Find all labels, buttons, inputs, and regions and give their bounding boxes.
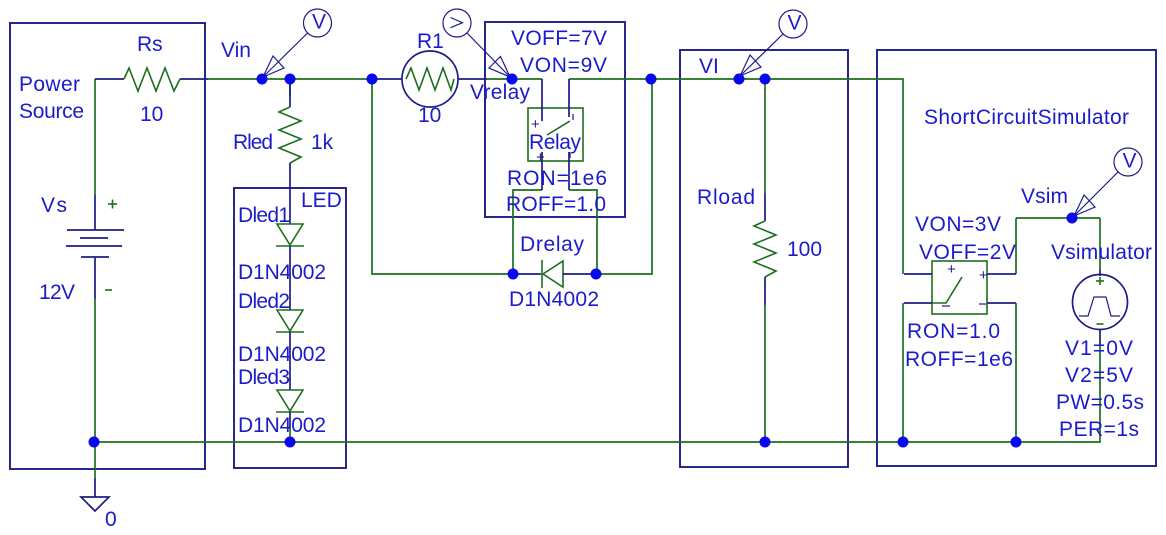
svg-text:10: 10	[140, 103, 163, 126]
svg-text:ShortCircuitSimulator: ShortCircuitSimulator	[924, 106, 1129, 129]
diode Dled2	[276, 246, 304, 332]
wire ground rail simulator	[903, 441, 1016, 443]
svg-text:Vsim: Vsim	[1021, 185, 1068, 208]
wire Vsim node to switch	[1015, 218, 1017, 274]
svg-text:VON=9V: VON=9V	[520, 54, 607, 77]
wire Rs right to Vin node	[208, 78, 262, 80]
svg-text:1k: 1k	[311, 131, 334, 154]
svg-text:VOFF=2V: VOFF=2V	[919, 241, 1016, 264]
svg-text:VON=3V: VON=3V	[915, 213, 1001, 236]
svg-text:Drelay: Drelay	[520, 233, 585, 256]
svg-text:0: 0	[105, 508, 117, 531]
wire Vsim node to source	[1099, 218, 1101, 270]
junction Rled branch	[285, 74, 296, 85]
wire battery plus to Rs	[94, 79, 96, 195]
svg-text:Vs: Vs	[41, 194, 67, 217]
wire relay switch out left	[513, 190, 542, 274]
wire R1 right to Vrelay node	[487, 78, 512, 80]
junction ground switch minus	[898, 437, 909, 448]
source Vsimulator	[1073, 270, 1128, 345]
wire relay switch out right	[569, 190, 597, 274]
svg-text:Vrelay: Vrelay	[470, 81, 531, 104]
svg-text:ROFF=1e6: ROFF=1e6	[905, 348, 1013, 371]
svg-text:Rs: Rs	[137, 33, 163, 56]
svg-text:V: V	[788, 12, 802, 35]
junction Rload branch	[760, 74, 771, 85]
junction ground battery	[89, 437, 100, 448]
svg-text:100: 100	[787, 238, 822, 261]
diode Drelay	[513, 260, 596, 288]
svg-text:D1N4002: D1N4002	[238, 414, 326, 437]
switch U1 Relay	[528, 79, 583, 190]
svg-text:Relay: Relay	[529, 131, 582, 154]
svg-text:V: V	[312, 11, 326, 34]
wire battery minus down	[94, 299, 96, 442]
junction Vsim node	[1067, 213, 1078, 224]
wire Rload branch to simulator	[765, 79, 903, 274]
wire Rload top	[764, 79, 766, 193]
wire relay pin to node right	[569, 78, 651, 80]
svg-text:D1N4002: D1N4002	[238, 343, 326, 366]
wire Vsim node	[1016, 217, 1100, 219]
battery Vs	[66, 195, 124, 299]
wire node to VI node	[651, 78, 739, 80]
probe I at Vrelay	[443, 9, 510, 77]
wire ground rail LED to Rload	[290, 441, 765, 443]
probe V at Vin	[263, 9, 332, 77]
diode Dled1	[276, 224, 304, 246]
diode Dled3	[276, 332, 304, 428]
box Power Source	[10, 23, 205, 469]
svg-text:V2=5V: V2=5V	[1065, 364, 1133, 387]
svg-text:D1N4002: D1N4002	[509, 288, 599, 311]
wire ground rail left	[94, 441, 290, 443]
junction Drelay cathode	[591, 269, 602, 280]
svg-text:V: V	[1123, 150, 1137, 173]
svg-text:RON=1e6: RON=1e6	[507, 167, 607, 190]
junction R1 left branch	[367, 74, 378, 85]
wire Vrelay node to relay pin	[512, 78, 542, 80]
junction relay output node	[646, 74, 657, 85]
junction Drelay anode	[508, 269, 519, 280]
ground 0	[81, 478, 109, 511]
svg-text:VOFF=7V: VOFF=7V	[511, 27, 607, 50]
svg-text:D1N4002: D1N4002	[238, 261, 326, 284]
svg-text:PW=0.5s: PW=0.5s	[1056, 391, 1144, 414]
wire simulator control minus to ground rail	[902, 303, 904, 442]
wire Vin node to R1 branch	[262, 78, 372, 80]
junction Vin probe	[257, 74, 268, 85]
svg-text:Power: Power	[19, 73, 80, 96]
junction ground switch out	[1011, 437, 1022, 448]
svg-text:Rload: Rload	[697, 186, 755, 209]
wire Rled branch top	[289, 79, 291, 96]
resistor Rs	[95, 68, 208, 91]
resistor Rled	[279, 84, 301, 224]
switch U2 simulator	[904, 261, 1016, 314]
svg-text:RON=1.0: RON=1.0	[907, 320, 1000, 343]
wire ground rail to Vsimulator	[1016, 345, 1100, 442]
probe V at Vsim	[1074, 148, 1142, 216]
box ShortCircuitSimulator	[877, 50, 1156, 466]
svg-text:Source: Source	[19, 100, 84, 123]
wire Rload bottom	[764, 305, 766, 442]
box LED	[234, 188, 346, 468]
svg-text:10: 10	[418, 104, 441, 127]
svg-text:Dled1: Dled1	[238, 204, 290, 227]
svg-text:Dled2: Dled2	[238, 290, 290, 313]
svg-text:V1=0V: V1=0V	[1065, 337, 1133, 360]
probe V at VI	[740, 10, 807, 76]
wire LED bottom	[289, 428, 291, 442]
svg-text:Vin: Vin	[221, 39, 251, 62]
wire right loop Drelay to top rail	[596, 79, 652, 274]
svg-text:R1: R1	[417, 30, 444, 53]
wire left loop down from Vin rail	[372, 79, 513, 274]
svg-text:PER=1s: PER=1s	[1059, 418, 1139, 441]
wire battery node to ground	[94, 442, 96, 478]
wire ground rail Rload to simulator	[765, 441, 903, 443]
resistor R1	[372, 51, 487, 107]
box Rload	[680, 50, 848, 467]
svg-text:Dled3: Dled3	[238, 366, 290, 389]
junction VI probe	[734, 74, 745, 85]
svg-text:Rled: Rled	[233, 131, 273, 154]
svg-text:VI: VI	[699, 55, 719, 78]
svg-text:+: +	[979, 267, 988, 284]
svg-text:ROFF=1.0: ROFF=1.0	[506, 193, 606, 216]
box Relay	[485, 22, 625, 217]
junction ground Rload	[760, 437, 771, 448]
svg-text:Vsimulator: Vsimulator	[1051, 241, 1152, 264]
svg-text:12V: 12V	[39, 281, 75, 304]
svg-text:LED: LED	[301, 189, 342, 212]
resistor Rload	[754, 193, 776, 305]
junction ground LED	[285, 437, 296, 448]
junction Vrelay node	[507, 74, 518, 85]
wire switch minus to ground rail	[1015, 303, 1017, 442]
wire VI node to Rload branch	[739, 78, 765, 80]
